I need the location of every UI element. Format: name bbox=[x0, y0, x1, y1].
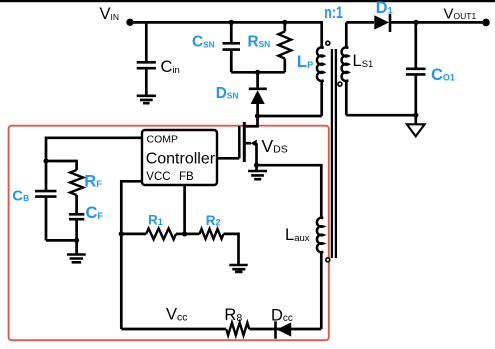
resistor R8 bbox=[226, 323, 249, 336]
node CB top junction dot bbox=[43, 158, 48, 163]
svg-text:COMP: COMP bbox=[147, 133, 179, 145]
capacitor CF bbox=[69, 214, 84, 219]
capacitor CO1 bbox=[406, 69, 426, 75]
wire CF bottom bbox=[75, 219, 78, 240]
wire DSN vertical bbox=[256, 72, 259, 116]
wire RSN branch bbox=[283, 22, 286, 72]
svg-text:RSN: RSN bbox=[248, 33, 271, 50]
transistor Q1 MOSFET bbox=[239, 122, 256, 165]
svg-text:R1: R1 bbox=[148, 212, 163, 227]
inductor Laux winding bbox=[317, 218, 323, 253]
wire bottom Vcc rail bbox=[121, 328, 321, 331]
svg-text:LP: LP bbox=[297, 52, 313, 71]
wire CB branch bbox=[45, 161, 48, 240]
op-amp U1 controller box bbox=[142, 130, 217, 185]
transformer core bbox=[332, 49, 336, 258]
svg-text:Dcc: Dcc bbox=[271, 306, 293, 324]
svg-text:LS1: LS1 bbox=[353, 52, 374, 70]
svg-text:Laux: Laux bbox=[285, 226, 310, 244]
svg-text:CF: CF bbox=[86, 204, 104, 222]
wire Cin branch bbox=[145, 22, 148, 94]
svg-text:RF: RF bbox=[84, 172, 102, 190]
wire CB-CF bottom link bbox=[46, 239, 77, 242]
svg-text:Vcc: Vcc bbox=[166, 306, 188, 324]
wire secondary bottom bbox=[346, 114, 416, 117]
svg-text:Controller: Controller bbox=[146, 150, 216, 167]
capacitor CSN bbox=[223, 43, 241, 49]
wire D1 to VOUT bbox=[390, 21, 486, 24]
node VOUT end dot bbox=[482, 19, 490, 27]
node source junction dot bbox=[254, 163, 259, 168]
top border frame bbox=[0, 0, 495, 2]
wire R1 lead left bbox=[121, 233, 146, 236]
node VOUT junction dot bbox=[413, 20, 418, 25]
ground (CF) bbox=[67, 255, 86, 263]
svg-text:VDS: VDS bbox=[262, 136, 288, 156]
node snubber-DSN dot bbox=[255, 70, 260, 75]
svg-text:CB: CB bbox=[12, 187, 29, 204]
wire R1 to FB node bbox=[176, 233, 185, 236]
wire snubber bottom bbox=[231, 71, 284, 74]
inductor LS1 secondary winding bbox=[342, 22, 349, 115]
svg-text:n:1: n:1 bbox=[324, 4, 343, 22]
wire source rail to aux bbox=[257, 165, 322, 218]
node drain junction dot bbox=[255, 113, 260, 118]
svg-text:Cin: Cin bbox=[161, 58, 180, 76]
node primary polarity dot bbox=[326, 41, 330, 45]
svg-text:R2: R2 bbox=[206, 213, 221, 228]
orange highlight box bbox=[9, 126, 329, 341]
capacitor CB bbox=[35, 191, 57, 197]
ground (R2) bbox=[229, 265, 247, 272]
node VIN dot bbox=[126, 19, 133, 26]
node R1 left dot bbox=[119, 231, 124, 236]
ground (MOSFET source) bbox=[248, 171, 267, 179]
wire RF to CF bbox=[75, 195, 78, 214]
resistor R1 bbox=[146, 228, 176, 239]
diode D1 bbox=[374, 14, 390, 32]
diode DSN bbox=[249, 89, 267, 104]
wire top rail from VIN to primary bbox=[131, 22, 322, 47]
wire CO1 branch bbox=[414, 22, 417, 115]
svg-text:CSN: CSN bbox=[192, 34, 215, 51]
resistor RSN bbox=[278, 32, 291, 59]
wire FB down bbox=[183, 185, 186, 234]
svg-text:VIN: VIN bbox=[100, 5, 120, 23]
node FB junction dot bbox=[182, 231, 187, 236]
wire secondary top to D1 bbox=[346, 21, 374, 24]
wire aux lead bottom bbox=[320, 252, 323, 329]
ground (Cin) bbox=[137, 96, 156, 103]
wire gate lead from controller bbox=[217, 157, 239, 160]
node secondary bottom dot bbox=[413, 113, 418, 118]
node RSN-rail dot bbox=[282, 20, 287, 25]
svg-text:DSN: DSN bbox=[216, 85, 239, 102]
wire COMP to CB network bbox=[46, 138, 142, 161]
wire drain jog into MOSFET bbox=[244, 116, 257, 126]
node secondary polarity dot bbox=[338, 82, 342, 86]
svg-text:FB: FB bbox=[179, 171, 194, 183]
inductor LP primary winding bbox=[317, 47, 324, 81]
wire drain to primary bottom bbox=[258, 81, 322, 116]
wire R2 lead left bbox=[185, 233, 200, 236]
resistor R2 bbox=[200, 229, 224, 239]
ground (output, triangle) bbox=[407, 124, 425, 136]
wire ground stub bbox=[75, 240, 78, 253]
svg-text:VCC: VCC bbox=[146, 171, 170, 183]
node CSN-rail dot bbox=[229, 20, 234, 25]
svg-text:VOUT1: VOUT1 bbox=[444, 5, 477, 22]
node CF ground junction dot bbox=[74, 238, 79, 243]
svg-text:D1: D1 bbox=[376, 0, 393, 17]
node aux polarity dot bbox=[326, 258, 330, 262]
resistor RF bbox=[70, 170, 83, 195]
wire R2 to ground bbox=[224, 234, 239, 265]
wire RF branch top bbox=[46, 161, 77, 170]
wire CSN branch bbox=[230, 22, 233, 72]
wire ground stub output bbox=[414, 115, 417, 124]
svg-text:R8: R8 bbox=[224, 306, 242, 324]
wire VCC down bbox=[121, 181, 142, 329]
capacitor Cin bbox=[137, 62, 156, 68]
svg-text:CO1: CO1 bbox=[431, 66, 455, 84]
wire source ground stub bbox=[255, 165, 258, 170]
diode Dcc bbox=[276, 321, 292, 338]
